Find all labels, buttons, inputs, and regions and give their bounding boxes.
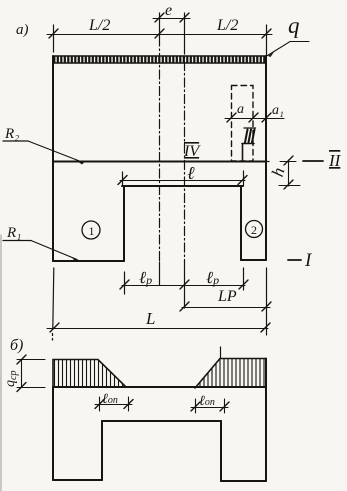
support line R2 level bbox=[53, 161, 266, 163]
svg-text:1: 1 bbox=[89, 224, 95, 238]
left pier bottom bbox=[53, 260, 124, 262]
dimension l_op right bbox=[191, 399, 229, 413]
dimension line l bbox=[118, 171, 247, 186]
tick at wall edge section II level bbox=[262, 161, 269, 163]
svg-text:I: I bbox=[304, 250, 313, 271]
dimension h bbox=[279, 156, 300, 189]
opening left side bbox=[123, 186, 125, 261]
svg-text:q: q bbox=[288, 13, 300, 38]
svg-text:ℓр: ℓр bbox=[206, 268, 219, 287]
section mark III hatched bbox=[244, 128, 256, 143]
wall outline part b bbox=[53, 359, 266, 482]
opening left side bbox=[101, 421, 103, 480]
svg-text:LР: LР bbox=[217, 288, 237, 305]
scan artifact left border bbox=[0, 235, 2, 491]
svg-text:а): а) bbox=[16, 22, 29, 38]
svg-text:б): б) bbox=[10, 337, 23, 354]
opening right side bbox=[240, 186, 242, 260]
pier mark circle 2 bbox=[246, 221, 263, 238]
dimension a / a1 bbox=[225, 113, 284, 122]
svg-text:h: h bbox=[268, 166, 289, 179]
tick continuation dots bbox=[52, 334, 54, 336]
section mark II bbox=[303, 160, 323, 162]
top line bbox=[53, 386, 266, 388]
pier mark circle 1 bbox=[82, 221, 100, 239]
svg-text:ℓоп: ℓоп bbox=[199, 394, 215, 409]
svg-text:e: e bbox=[165, 2, 172, 19]
load trapezoid left bbox=[53, 360, 126, 388]
distributed load strip q bbox=[53, 56, 266, 63]
opening right side bbox=[220, 421, 222, 481]
svg-text:2: 2 bbox=[251, 223, 257, 237]
load trapezoid right bbox=[195, 359, 266, 389]
dimension l_op left bbox=[95, 397, 133, 411]
svg-text:R₁: R₁ bbox=[6, 225, 21, 241]
opening top bbox=[102, 420, 221, 422]
bracket below III bbox=[242, 144, 254, 162]
svg-text:qср: qср bbox=[3, 371, 19, 387]
dimension line Lp bbox=[180, 302, 271, 311]
centerline opening x184 dash-dot bbox=[184, 45, 186, 262]
svg-text:ℓоп: ℓоп bbox=[102, 392, 118, 407]
lintel bottom bbox=[122, 185, 243, 187]
dimension line e bbox=[153, 13, 190, 22]
bottom right bbox=[221, 480, 266, 482]
centerline wall x159 dash-dot bbox=[159, 37, 161, 262]
right edge bbox=[265, 359, 267, 482]
right pier bottom bbox=[241, 259, 266, 261]
svg-text:а₁: а₁ bbox=[272, 103, 284, 118]
right edge bbox=[265, 56, 267, 260]
dimension q_cp vertical bbox=[17, 355, 45, 392]
dashed rect load area bbox=[232, 86, 254, 162]
svg-text:IV: IV bbox=[183, 143, 201, 160]
svg-text:II: II bbox=[328, 151, 342, 170]
svg-text:L: L bbox=[145, 309, 155, 328]
dimension line L bbox=[47, 268, 270, 335]
svg-text:а: а bbox=[237, 102, 244, 117]
dimension line lp lp bbox=[120, 262, 248, 308]
svg-text:L/2: L/2 bbox=[216, 17, 238, 34]
svg-text:R₂: R₂ bbox=[4, 126, 19, 142]
tick right x266 bbox=[266, 25, 268, 56]
tick left x53 bbox=[53, 25, 55, 52]
bottom left bbox=[53, 479, 102, 481]
tick above right trapezoid bbox=[220, 347, 222, 359]
wall outline part a bbox=[53, 56, 266, 261]
section mark I bbox=[288, 259, 301, 261]
left edge bbox=[52, 56, 54, 261]
tick e right x184 bbox=[184, 13, 186, 45]
svg-text:ℓр: ℓр bbox=[139, 268, 152, 287]
tick e left x159 bbox=[159, 13, 161, 37]
dimension line L/2 top bbox=[47, 29, 272, 38]
left edge bbox=[52, 387, 54, 480]
svg-text:L/2: L/2 bbox=[88, 17, 110, 34]
